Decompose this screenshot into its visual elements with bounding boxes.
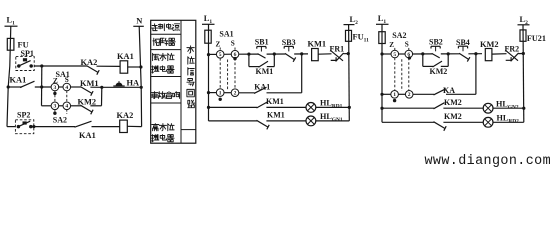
fuse FU [7, 38, 28, 50]
contact KA (NO, from water level relay) [434, 86, 456, 95]
wire: row2 KA1 contact to node X2 [35, 86, 52, 88]
wire: row1 KA1 coil to N bus [128, 66, 141, 68]
SA2 position lines with dots [394, 48, 396, 50]
control switch SA2 contacts 3,4 (row3) [51, 102, 71, 125]
contact KM1 (NO, run lamp) [257, 97, 284, 108]
stop button SB2 (NC) [429, 38, 443, 58]
table right column cell divider [181, 129, 196, 131]
wire: row3 from X3 through SA2 contacts [42, 105, 52, 107]
svg-text:4: 4 [65, 104, 68, 110]
node X2 [40, 85, 43, 88]
svg-text:5: 5 [393, 52, 396, 58]
wire: SA2 to SB2 node [412, 53, 432, 55]
terminal L1 (middle) [202, 14, 215, 25]
wire: row4 KA1 contact to KA2 coil [92, 126, 120, 128]
contact KA2 (NC, in KA1 coil branch) [81, 58, 100, 75]
SA1 position lines (to contacts 1,2) with dots [219, 48, 221, 51]
cell text: 控制电源 (control power) [151, 24, 179, 31]
start button SB3 (NO) [282, 38, 296, 62]
wire: left L1 bus [7, 26, 11, 126]
node: SB1 right / SB3 left [273, 52, 276, 55]
svg-text:KM2: KM2 [480, 40, 499, 49]
wire: row 1-2 contacts from bus (right) [382, 93, 392, 95]
contact KM2 (NC, alarm row3) [78, 97, 97, 114]
wire: lamp row B [209, 120, 258, 122]
cell text: 低水位继电器 (low water level relay) [152, 53, 174, 73]
cell text: 事故音响 (fault alarm) [151, 92, 179, 99]
wire: row4 SP2 to KA1 contact [34, 126, 75, 128]
svg-text:5: 5 [219, 52, 222, 58]
node: bus main row [207, 53, 210, 56]
svg-text:SA2: SA2 [53, 116, 67, 125]
terminal L1 (right) [376, 14, 389, 25]
svg-text:KA2: KA2 [117, 111, 134, 120]
wire: row2 SA1 to KM1 contact [70, 86, 81, 88]
wire: right L2 bus [522, 25, 525, 123]
SA1 position lines + closed-position dots [53, 91, 67, 103]
node: SB1 left [247, 53, 250, 56]
node: bus at contacts-1,2 row [207, 91, 210, 94]
wire: FR1 to L2 bus node [344, 53, 349, 55]
svg-text:1: 1 [393, 92, 396, 98]
table column divider [180, 20, 182, 143]
fuse FU21 (right L2) [520, 30, 546, 43]
svg-text:SB2: SB2 [429, 38, 443, 47]
wire: row1 from SP1 to KA2 [34, 65, 87, 67]
node: SB2 left [421, 52, 424, 55]
wire: row4 KA2 coil to N bus [127, 125, 141, 127]
svg-text:HLRD2: HLRD2 [497, 114, 520, 125]
function table frame [151, 20, 196, 143]
contactor coil KM2 [480, 40, 499, 61]
pressure switch SP2 [15, 111, 33, 134]
relay coil KA2 (high water level relay) [117, 111, 134, 133]
terminal N (neutral) [133, 17, 144, 27]
indicator lamp HL-GN2 [483, 99, 519, 113]
wire: row2 from bus to KA1 contact [8, 86, 22, 88]
contact KA1 (NO self-hold, parallel SP1) [10, 75, 35, 87]
wire: main row bus to SA2 [382, 53, 391, 55]
fuse FU11 (middle L2) [346, 30, 370, 43]
node: SB2 right / SB4 left [447, 52, 450, 55]
fuse FU (right left bus) [379, 32, 385, 44]
control switch SA2 contacts 1,2 [391, 91, 413, 99]
wire: FR2 to L2 node [519, 53, 524, 55]
wire: right circuit left bus [381, 24, 383, 122]
indicator lamp HL-RD1 (red, pump1 run) [306, 99, 343, 113]
svg-text:3: 3 [54, 85, 57, 91]
wire: row1 KA2 to KA1 coil [97, 65, 121, 67]
cell text: 高水位继电器 (high water level relay) [152, 124, 174, 142]
thermal overload contact FR2 [505, 45, 520, 62]
indicator lamp HL-GN1 (green, pump1 stopped) [306, 112, 343, 126]
svg-text:Z: Z [216, 40, 221, 48]
wire: lamp row A [209, 106, 258, 108]
control switch SA1 contacts 5,6 [216, 30, 239, 59]
self-hold contact KM2 (parallel SB2) [423, 54, 448, 76]
svg-text:KA2: KA2 [81, 58, 98, 67]
wire: row 1-2 contacts from bus [209, 92, 217, 94]
wire: KA1 contact up to main row node [267, 92, 302, 94]
wire: main row bus to SA1 [209, 53, 217, 55]
svg-text:L1: L1 [204, 14, 213, 25]
start button SB4 (NO) [456, 38, 470, 62]
node: SP2 output [32, 125, 35, 128]
terminal L2 (middle) [344, 15, 359, 26]
node: right bus lamp row A (right) [522, 107, 525, 110]
svg-text:1: 1 [219, 91, 222, 97]
wire: SB2 to SB4 node [441, 53, 460, 55]
contact KM2 (NC, stop lamp) [434, 112, 462, 131]
wire: vertical X1-X2-X3 [41, 66, 43, 106]
table row dividers (left column) [151, 33, 181, 35]
svg-text:KM1: KM1 [266, 97, 284, 106]
wire: SB4 to KM2 coil node [468, 53, 482, 55]
contact KA1 (NO, high water row) [75, 121, 96, 140]
svg-text:SA2: SA2 [392, 31, 406, 40]
svg-text:SA1: SA1 [219, 30, 233, 39]
control switch SA1 contacts 3,4 (row2) [51, 70, 71, 91]
indicator lamp HL-RD2 [483, 114, 519, 128]
wire: lamp row A (right) [382, 107, 434, 109]
wire: KM2 coil to FR2 [492, 53, 507, 55]
wire: middle L2/right bus [348, 25, 351, 121]
control switch SA2 contacts 5,6 [389, 31, 412, 58]
cell text: 熔断器 (fuses) [153, 38, 175, 45]
node: KM2 coil input / KA branch join [474, 52, 477, 55]
svg-text:KM1: KM1 [80, 79, 99, 88]
contact KM1 (NC, alarm row) [80, 79, 99, 96]
node: bus at contacts-1,2 row (right) [380, 93, 383, 96]
wire: KM1 coil to FR1 [318, 53, 331, 55]
svg-text:N: N [136, 17, 142, 26]
wire: row4 bus to SP2 [7, 126, 15, 128]
svg-text:S: S [231, 40, 235, 48]
svg-text:S: S [405, 40, 409, 48]
stop button SB1 (NC) [255, 38, 269, 59]
contactor coil KM1 [308, 40, 327, 61]
svg-text:L1: L1 [378, 14, 387, 25]
svg-text:FU21: FU21 [527, 34, 546, 43]
terminal L2 (right) [518, 15, 530, 26]
pressure switch SP1 [16, 49, 34, 71]
wire: row3 KM2 to vertical rise into row2 [90, 105, 101, 107]
wire: SB1 to SB3 node [267, 53, 286, 55]
svg-text:4: 4 [65, 85, 68, 91]
wire: KA contact up to main row node [446, 93, 476, 95]
wire: middle left bus [208, 24, 210, 121]
svg-text:KM2: KM2 [430, 67, 448, 76]
svg-text:KM2: KM2 [78, 97, 97, 106]
relay coil KA1 (low water level relay) [117, 52, 134, 73]
contact KA1 (NO, from water level relay) [254, 82, 270, 93]
node: L2 bus main row (right) [522, 52, 525, 55]
terminal L1 (left circuit phase) [5, 16, 18, 27]
wire: row2 node X4 to HA to N bus [102, 86, 141, 88]
node: KM1 coil input / KA1 branch join [300, 52, 303, 55]
svg-text:KA1: KA1 [79, 131, 96, 140]
wire: SA1 to SB1 node [238, 53, 258, 55]
svg-text:KM1: KM1 [256, 67, 274, 76]
wire: row2 KM1 to node X4 [90, 86, 101, 88]
svg-text:SB3: SB3 [282, 38, 296, 47]
svg-text:KM2: KM2 [444, 112, 462, 121]
svg-text:FU11: FU11 [353, 33, 370, 44]
svg-text:www.diangon.com: www.diangon.com [425, 154, 552, 169]
svg-text:KA1: KA1 [10, 75, 27, 84]
svg-text:KM1: KM1 [308, 40, 327, 49]
svg-text:FR2: FR2 [505, 45, 520, 54]
contact KM2 (NO, run lamp) [434, 98, 462, 109]
svg-text:3: 3 [54, 104, 57, 110]
wire: lamp row B (right) [382, 121, 434, 123]
svg-text:Z: Z [389, 41, 394, 49]
svg-text:2: 2 [234, 91, 237, 97]
node: bus at lamp row A [207, 106, 210, 109]
svg-text:KA1: KA1 [117, 52, 134, 61]
cell text: 水位信号回路 (water level signal loop), vertical [187, 46, 194, 108]
thermal overload contact FR1 [330, 45, 345, 62]
node X4 [100, 86, 103, 89]
node: N bus row1 [139, 65, 142, 68]
node X1 junction [40, 64, 43, 67]
node: L2 bus main row [347, 52, 350, 55]
svg-text:HLGN1: HLGN1 [320, 112, 343, 123]
wire: SB3 to KM1 coil node [294, 53, 308, 55]
svg-text:HA: HA [127, 79, 140, 88]
contact KM1 (NC, stop lamp) [257, 111, 285, 130]
node: right bus lamp row A [348, 106, 351, 109]
fuse FU (middle left) [205, 30, 211, 43]
svg-text:L1: L1 [7, 16, 16, 27]
node: bus at lamp row A (right) [380, 107, 383, 110]
node: N bus row2 [140, 86, 143, 89]
svg-text:KM1: KM1 [267, 111, 285, 120]
svg-text:FR1: FR1 [330, 45, 345, 54]
svg-text:2: 2 [408, 92, 411, 98]
svg-text:KA1: KA1 [254, 82, 270, 91]
self-hold contact KM1 (parallel SB1) [249, 54, 274, 76]
svg-text:SP2: SP2 [17, 111, 30, 120]
control switch SA1 contacts 1,2 [216, 89, 238, 97]
node: bus main row (right) [380, 52, 383, 55]
svg-text:KM2: KM2 [444, 98, 462, 107]
wire: N bus [139, 26, 141, 126]
alarm bell HA [113, 79, 139, 88]
svg-text:SB1: SB1 [255, 38, 269, 47]
